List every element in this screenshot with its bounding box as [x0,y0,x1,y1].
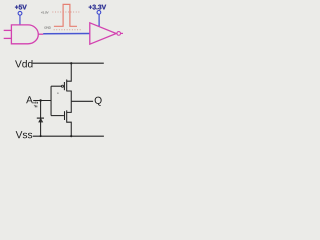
diode D1 cathode bar [37,117,44,119]
waveform +5.0V level label [41,11,49,13]
+5V supply terminal circle [18,11,22,15]
wire Q2 source to Vss [67,122,72,136]
wire A node down to diode and Vss [40,101,42,137]
inverter U2 output stub [121,32,123,34]
wire Q1 drain to output node [67,91,72,101]
Vdd rail [33,62,104,64]
wire A to gate bus [33,100,51,102]
pulse waveform trace [54,4,77,26]
wire gate bus to Q1 gate [51,85,61,87]
+3.3V supply label [89,5,106,10]
NMOS Q2 gate plate [64,111,66,120]
wire Vdd to Q1 source [67,63,72,81]
PMOS Q1 gate plate [63,82,65,90]
wire gate output to inverter input [43,33,90,35]
NMOS Q2 channel [66,110,68,122]
output wire to Q [71,100,93,102]
Vdd label [15,60,32,67]
junction dot Vss rail at Q2 source [70,135,72,137]
Vss label [16,131,33,138]
gate U1 output pin [38,33,43,35]
inverter U2 output bubble [117,32,121,36]
waveform +5.0V dotted level line [52,11,79,13]
wire +3.3V to inverter U2 [98,14,100,27]
Q label [95,97,102,106]
gate bus vertical [50,86,52,115]
+5V supply label [15,5,27,10]
diode D1 triangle [39,119,42,122]
junction node A [39,99,41,101]
A label [26,96,33,103]
inverter U2 triangle [90,23,116,44]
gate U1 input pin 2 [4,37,12,39]
junction dot Vss rail at diode branch [40,135,42,137]
gate U1 input pin 1 [4,29,12,31]
junction dot Vdd rail [70,62,72,64]
tiny annotation glyphs near A [33,102,38,108]
PMOS Q1 gate bubble [62,85,64,87]
wire output node to Q2 drain [67,101,72,112]
AND gate U1 [11,25,38,44]
PMOS Q1 channel [66,80,68,92]
waveform GND dotted level line [54,29,81,31]
waveform GND label [44,26,50,28]
Vss rail [33,135,104,137]
stray dot artifact [57,92,59,94]
wire gate bus to Q2 gate [51,115,64,117]
wire +5V to gate U1 [19,15,21,25]
+3.3V supply terminal circle [97,11,101,15]
